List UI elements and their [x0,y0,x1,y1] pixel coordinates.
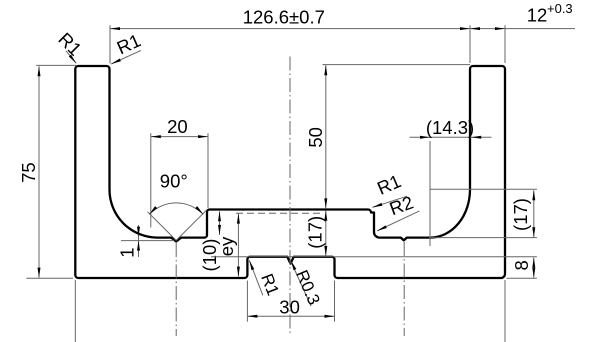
dimension ey [216,213,322,276]
extension line right wall outer [504,25,506,63]
dimension (17) left [305,211,328,256]
dimension 30 [247,281,334,322]
leader R1 top-left [54,28,86,64]
svg-text:+0.3: +0.3 [547,1,573,16]
extension below left wall [74,280,76,342]
dimension 50 [305,65,470,209]
angle 90 degrees [148,171,207,241]
svg-text:20: 20 [167,116,188,137]
dimension 12+0.3 [470,1,575,30]
leader R1 middle [372,170,407,209]
dimension 75 [18,65,76,278]
extension below right wall [504,280,506,342]
extension line left wall inner [109,25,111,63]
dimension 126.6±0.7 [110,7,470,31]
dimension (17) right [429,189,537,237]
dimension 1 [116,225,174,258]
svg-text:(14.3): (14.3) [426,117,474,138]
svg-text:1: 1 [116,247,137,257]
svg-text:50: 50 [305,127,326,148]
svg-text:8: 8 [511,260,532,270]
leader R1 top-right [111,30,144,66]
svg-text:(17): (17) [305,216,326,249]
centerline x=176.2 [175,243,177,336]
part outline [75,66,505,278]
svg-text:ey: ey [216,236,237,256]
extension line ledge level right [429,237,537,239]
leader R0.3 [290,260,324,308]
centerline x=290 [289,57,291,337]
svg-text:(17): (17) [510,198,531,231]
extension line right wall inner [469,25,471,63]
dimension 20 [151,116,208,228]
leader R1 bottom [248,260,283,298]
svg-text:126.6±0.7: 126.6±0.7 [243,7,325,28]
svg-text:90°: 90° [160,171,188,192]
dimension (14.3) [410,117,492,246]
centerline x=404 [403,242,405,336]
long extension line y=256.8 [211,256,537,258]
svg-text:12: 12 [527,4,548,25]
svg-text:75: 75 [18,162,39,183]
dimension (10) [199,211,221,271]
dimension 8 [507,257,537,278]
leader R2 middle [376,191,419,232]
